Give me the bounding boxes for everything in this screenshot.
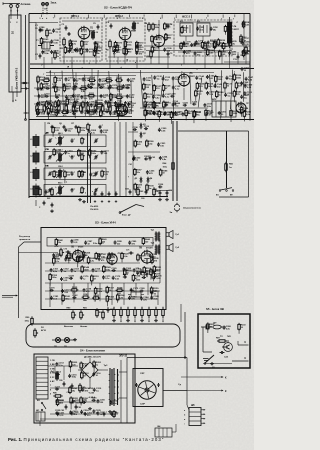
capacitor C216 [92,372,101,377]
capacitor C266 [223,326,232,331]
resistor R102 [42,77,50,85]
resistor R143 [153,101,162,110]
fuse Пр1 [128,290,144,297]
ground G4 [165,198,169,201]
capacitor C257 [71,400,80,405]
ground G10 [50,210,54,213]
capacitor C58 [45,190,53,195]
capacitor C237 [114,101,123,106]
wire s3drop 6 [123,283,125,305]
resistor R61 [47,187,53,200]
speaker Гр1 [166,231,180,239]
capacitor C152 [243,91,252,96]
label Блок УКВ-ИП-2 [11,30,19,89]
resistor R199 [101,170,110,178]
capacitor C131 [143,77,152,82]
resistor R105 [105,78,113,86]
resistor R103 [54,76,63,87]
capacitor C59 [125,189,131,195]
capacitor C96 [59,123,65,129]
resistor R147 [205,109,214,121]
capacitor C203 [144,156,150,160]
resistor R92 [102,310,105,319]
wire FPC1 bottom [62,56,100,58]
capacitor C133 [162,77,171,82]
capacitor C121 [36,102,45,107]
capacitor C129 [109,111,118,116]
capacitor C36 row [71,139,76,143]
resistor R76 (output row) [148,307,151,319]
block S3 outer edge [19,242,42,318]
resistor Rc1 [43,104,46,114]
block U-UKV border [9,15,21,92]
capacitor C66 row [71,188,76,192]
capacitor C238 [124,101,133,106]
wire comb bus [36,116,132,118]
block S2 bus line [29,119,254,121]
capacitor C226 [52,253,61,258]
pot P4 [34,326,47,338]
wire vdrop 7 [118,74,121,114]
resistor R172 [136,41,145,49]
wire input join [29,22,36,24]
trimmer C35 row0 [48,138,52,143]
UKV inner pins bot [12,86,17,92]
capacitor C201 [157,142,166,147]
wire drop 19 [237,52,239,64]
tube L3 [153,34,164,48]
resistor R149 [103,265,112,273]
resistor R245 [53,257,62,266]
capacitor C72 [136,268,143,275]
capacitor C13 [233,55,239,61]
wire drop 16 [214,52,216,64]
capacitor C199 [144,126,150,130]
capacitor C62 [149,156,155,161]
capacitor C127 [72,111,78,115]
capacitor C194 [135,50,144,55]
wire tr right2 [119,397,127,399]
connector Ш5 [189,408,206,426]
resistor Rc4 [65,104,68,114]
capacitor C209 [100,129,109,134]
wire epu right v [186,358,188,406]
trimmer C57 row2 [94,171,98,176]
block S4 border [34,354,135,423]
capacitor C172 [112,276,121,281]
capacitor C85 [157,383,159,387]
capacitor C113 [38,94,47,99]
capacitor C268 [240,81,249,86]
resistor R223 [230,109,239,122]
resistor R111 [87,93,95,101]
wire vdrop 14 [198,77,202,107]
wire drop 15 [204,52,206,69]
capacitor C166 [122,267,131,272]
capacitor C252 [210,27,219,32]
capacitor C249 [205,111,214,116]
coil L41 [56,185,62,195]
resistor R3 [61,37,66,50]
resistor R113 [115,94,123,102]
arrow AGC left [24,112,30,114]
resistor Rc2 [50,104,53,114]
resistor R118 [96,103,104,111]
resistor R186 [146,139,155,147]
resistor R218 [36,108,45,116]
resistor R205 [70,396,79,409]
capacitor C258 [82,400,88,404]
tube L1 [78,26,90,40]
transistor T1 [36,40,54,54]
wire fss top [176,21,230,23]
capacitor C233 [74,99,80,103]
bus wire C [46,72,214,74]
pin label 9 [174,15,176,20]
resistor R10b [210,39,216,48]
capacitor C290 [64,257,73,262]
wire S4 h3 [89,382,91,388]
coil block L10 [30,134,39,148]
capacitor C256 [149,254,158,259]
wire S5 out1 [238,341,249,345]
wire FPC2 v1 [109,47,111,57]
capacitor C193 [113,49,122,54]
coil L11 [133,21,140,31]
resistor R138 [235,81,244,94]
capacitor C136 [152,95,161,100]
resistor R191 [52,126,61,137]
capacitor C180 [139,288,145,292]
capacitor C165 [111,268,117,272]
resistor R170 [114,41,123,49]
wire S5 v [202,327,204,352]
ground row G5 [112,319,158,322]
speaker Гр2 [166,244,180,252]
pin label 7 [142,15,144,20]
resistor R189 [134,183,143,193]
wire drop 12 [167,57,169,69]
capacitor C11 [194,42,202,47]
wire S3 h1 [45,262,140,264]
wire r col v [243,14,245,60]
wire drop 17 [221,52,223,64]
capacitor C151 [224,93,233,98]
capacitor C217 [55,386,61,390]
tube L5 [116,103,127,117]
resistor R193 [53,148,62,156]
capacitor C245 [113,110,122,115]
capacitor C106 [37,87,46,92]
capacitor C289 [128,241,137,246]
pin label 4 [102,15,104,20]
resistor R184 [242,49,251,57]
resistor R108 [63,84,72,92]
resistor R231 [56,398,65,406]
capacitor C118 [80,95,89,100]
wire lamp [52,339,75,341]
capacitor Ch2 [108,191,111,202]
wire UKV out lower [21,88,29,90]
wire s3 to epu2 [180,304,182,322]
block S2 right border [249,14,251,121]
capacitor C5b [68,32,71,36]
lamp Л2 [54,337,61,348]
wire vdrop 4 [84,75,87,116]
connector Ш7 [201,323,226,330]
wire band left v [44,122,46,196]
coil L21 [56,152,62,162]
resistor R226 [224,25,233,35]
label Л2 6К4П [131,28,137,33]
wire S4 v1 [54,366,56,372]
capacitor C64 [166,189,173,196]
resistor R212 [94,46,103,56]
resistor R66 row [81,186,86,194]
resistor R217 [66,98,75,108]
capacitor C270 [52,84,58,88]
wire motor out [163,390,187,392]
label Л9 6П14П [139,247,153,250]
tube L8 [72,249,83,263]
block S2 lower bus [29,196,168,198]
wire drop 0 [43,57,45,69]
resistor R235 [40,82,49,90]
wire S5 right v [237,341,239,345]
resistor R136 [205,82,214,90]
capacitor C46 row [71,155,76,159]
arrow row [120,319,163,323]
capacitor C239 [55,110,61,114]
resistor Rc0 [36,104,39,114]
capacitor C156 [192,101,198,105]
capacitor C219 [93,388,102,393]
transformer Тр2 [151,243,161,255]
wire mixer h [146,56,170,58]
resistor R214 [123,47,132,55]
wire drop 9 [136,57,138,69]
capacitor C144 [195,75,204,80]
capacitor C276 [122,84,131,89]
resistor R173 [125,47,134,55]
resistor Rc6 [80,104,83,114]
capacitor C56 row [71,172,76,176]
wire vdrop 13 [190,75,191,104]
label Регулятор громкости [19,236,31,241]
bus wire A [30,63,250,65]
volume pot R70 [55,246,65,257]
resistor R144 [144,109,153,122]
resistor R200 [69,360,78,372]
capacitor C273 [87,84,96,89]
wire feeder left [25,15,27,120]
wire vdrop 17 [230,70,232,109]
wire B4 up [175,424,177,432]
capacitor C283 [194,51,203,56]
resistor R72 (output row) [120,307,123,319]
wire mains [39,421,41,426]
resistor Rc10 [109,104,112,114]
resistor R101 [37,75,46,83]
resistor R91 [96,308,104,317]
wire UKV out upper [21,82,29,84]
wire vdrop 9 [140,70,143,109]
resistor R190 [146,184,155,194]
capacitor C147 [245,76,254,81]
resistor R146 [193,110,202,123]
wire mid h1 [34,87,130,89]
UKV pin 2 arrow [17,10,19,19]
core arrow row1 [56,153,64,162]
band row box ДВ-1 [44,133,106,146]
labels пластин [50,360,56,396]
hanging C102 [39,201,45,209]
resistor R220 [158,110,167,122]
resistor R90 [25,316,34,325]
capacitor C158 [153,111,162,116]
capacitor C90 [107,307,115,313]
labels hanging [90,205,98,211]
wire drop 18 [229,52,231,69]
wire drop 3 [71,57,73,69]
resistor R131 [163,100,172,110]
capacitor C240 [67,109,76,114]
capacitor C123 [90,103,99,108]
capacitor C70 [64,249,71,254]
wire epu left v2 [120,360,122,423]
resistor R234 [240,106,249,117]
wire vdrop 2 [62,71,63,112]
resistor R237 [152,272,161,282]
capacitor Ch3 [115,191,118,202]
feedback rect [47,238,153,247]
wire drop 7 [117,57,119,64]
capacitor C160 [174,111,183,116]
wire FPC1 v1 [63,47,65,57]
resistor R7 [113,43,118,55]
resistor R87 [216,338,227,343]
capacitor C175 [153,275,162,280]
UKV pin 3 terminal [12,92,14,103]
capacitor C261 [56,412,65,417]
capacitor C275 [109,85,118,90]
capacitor C173 [123,274,129,278]
resistor R201 [80,361,89,373]
resistor R232 [207,322,216,333]
wire drop 2 [63,57,65,64]
wire vdrop 5 [97,70,98,115]
capacitor C185 [150,296,159,301]
capacitor C6 [107,22,113,28]
resistor R238 [217,38,226,46]
capacitor C212 [89,173,98,178]
wire band h mid [128,151,160,153]
capacitor C176 [49,288,55,292]
transformer Тр1 [151,230,161,242]
wire box2 top [108,20,143,22]
wire vdrop 15 [209,74,212,100]
capacitor C274 [97,82,106,87]
wire vol in [19,252,59,254]
pin label 13 [233,15,235,21]
block FSS-2 border [174,20,232,56]
diode D3 [135,177,143,183]
capacitor C221 [91,398,97,402]
resistor R158 [116,287,124,295]
resistor R181 [213,41,222,52]
capacitor C286 [70,239,79,244]
capacitor C115 [55,94,61,98]
wire caps top [156,190,170,192]
capacitor Ch0 [94,191,97,202]
lamp Л3 [64,337,70,348]
resistor R210 [150,268,159,279]
wire S3 h4 [45,270,160,272]
wire FPC2 bottom [108,56,143,58]
wire S3 h2 [45,282,160,284]
resistor R65 [225,162,234,172]
capacitor C159 [164,111,173,116]
capacitor C208 [88,129,97,134]
label Л3 6И1П [165,35,171,40]
capacitor C182 [72,295,78,299]
capacitor C7 [136,44,143,49]
resistor R96 [87,123,92,132]
capacitor C117 [72,94,81,99]
pickup terminal XS2 [42,2,49,14]
resistor R156 [94,287,103,299]
resistor R71 (output row) [113,307,116,319]
capacitor C205 [146,170,155,175]
capacitor C111 [107,85,113,89]
wire S4 bottom h [40,418,120,420]
capacitor Ch1 [101,191,104,202]
bus wire B [30,68,254,70]
wire tr h1 [146,45,250,47]
pin label 6 [128,15,130,21]
wire FPC2 v2 [124,41,126,57]
capacitor C126 [47,111,56,116]
resistor R114 [45,100,54,110]
wire FSS v2 [202,36,204,41]
capacitor C99 [103,412,108,417]
wire midr h2 [140,107,208,109]
wire S4 h2 [102,369,108,371]
wire FPC1 v3 [83,42,85,57]
wire vdrop 10 [152,75,153,102]
antenna terminal XS1 [3,2,20,15]
wire s3drop 3 [87,283,89,296]
resistor R6 [106,39,111,51]
coil block L40 [30,184,39,198]
wire drop 13 [183,52,185,64]
resistor R188 [159,169,168,177]
capacitor C141 [152,110,161,115]
capacitor C181 [50,296,59,301]
trimmer C37 row0 [94,138,98,143]
UKV pin 4 terminal [15,92,17,102]
resistor R117 [82,101,91,111]
capacitor C171 [102,275,111,280]
wire S3 v out [159,240,161,283]
capacitor C153 [164,102,170,106]
resistor R130 [152,101,161,109]
capacitor C229 [74,48,83,53]
resistor R198 [78,170,87,178]
capacitor C157 [203,103,212,108]
block S2 left border [28,14,30,199]
arrow К2 [187,390,227,393]
